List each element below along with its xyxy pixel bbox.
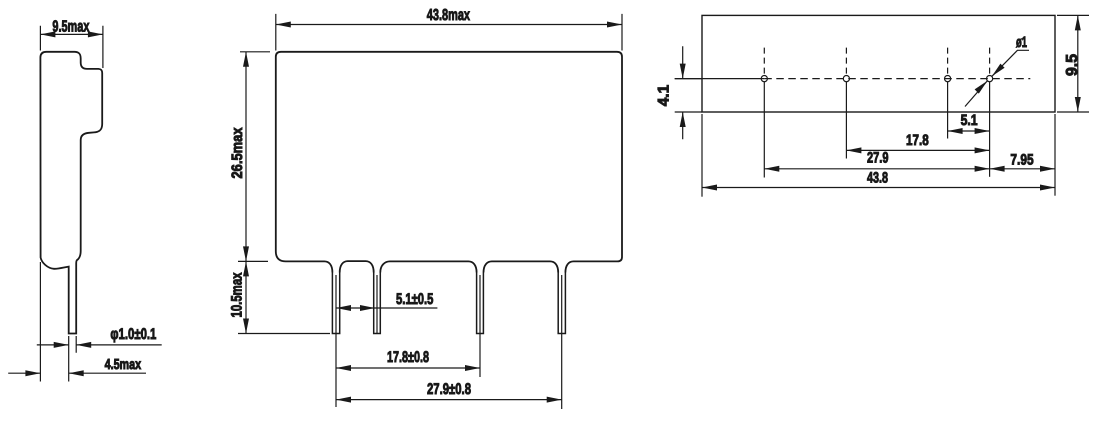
dimension 17.8 line <box>336 367 480 369</box>
dimension 9.5 line <box>1077 15 1079 112</box>
4.1 top extension line <box>675 78 702 80</box>
hole 1 circle <box>761 76 767 82</box>
dimension 26.5max line <box>245 52 247 262</box>
hole 2 extension line below <box>845 82 847 159</box>
hole center line dashed <box>764 78 1030 80</box>
dimension 10.5max arrowheads <box>243 261 249 333</box>
MIDDLE VIEW <box>229 7 623 409</box>
dimension 9.5max extension lines <box>40 26 103 68</box>
diameter leader arrow lower <box>975 81 988 94</box>
svg-text:9.5max: 9.5max <box>52 19 89 36</box>
body-left extension line (4.5max) <box>39 262 41 382</box>
diameter leader line lower <box>965 81 987 107</box>
svg-text:27.9±0.8: 27.9±0.8 <box>427 381 471 398</box>
4.1 bottom extension line <box>675 111 702 113</box>
svg-text:43.8max: 43.8max <box>427 7 470 24</box>
dimension 10.5max line <box>245 261 247 333</box>
svg-text:7.95: 7.95 <box>1010 152 1033 169</box>
dimension 26.5max arrowheads <box>243 52 249 262</box>
hole 1 vertical dashed centerline <box>763 48 765 74</box>
hole 4 circle <box>987 76 993 82</box>
dimension 4.5max lines <box>8 372 146 374</box>
dimension 5.1 line <box>336 307 437 309</box>
svg-text:φ1.0±0.1: φ1.0±0.1 <box>110 326 156 343</box>
hole center line solid left part <box>675 78 765 80</box>
hole 2 circle <box>843 76 849 82</box>
front-view body outline with pin roots <box>276 52 622 273</box>
pin edge extension lines (phi dim) <box>69 336 77 382</box>
rect right extension below <box>1054 114 1056 196</box>
dimension phi1.0 lines <box>37 344 162 346</box>
dimension 17.8 arrowheads <box>336 365 480 371</box>
dimension phi1.0 arrowheads <box>54 342 91 348</box>
dimension 43.8 arrowheads <box>702 185 1055 191</box>
dimension 4.1 arrowheads <box>680 64 686 127</box>
dimension 5.1 arrowheads <box>336 305 375 311</box>
dimension 7.95 line <box>990 168 1055 170</box>
hole 3 circle <box>945 76 951 82</box>
dimension 43.8 line <box>702 187 1055 189</box>
pin 4 center extension line <box>561 275 563 409</box>
dimension 27.9 line <box>764 168 989 170</box>
26.5max / 10.5max shared extension line at body bottom <box>238 260 268 262</box>
svg-text:17.8±0.8: 17.8±0.8 <box>387 349 429 366</box>
dimension 4.1 lines <box>682 46 684 139</box>
dimension 5.1 arrowheads <box>948 128 990 134</box>
svg-text:5.1±0.5: 5.1±0.5 <box>396 291 434 308</box>
hole 4 extension line below <box>989 82 991 177</box>
dimension 17.8 arrowheads <box>846 147 989 153</box>
svg-text:4.1: 4.1 <box>656 84 673 106</box>
9.5 bottom extension line <box>1057 111 1089 113</box>
dimension 43.8max arrowheads <box>276 22 622 28</box>
rect left extension below <box>701 114 703 197</box>
LEFT VIEW <box>8 19 162 382</box>
pin 3 outline <box>477 273 484 334</box>
pin 1 outline <box>332 273 339 334</box>
dimension 27.9 arrowheads <box>764 166 989 172</box>
side-view body outline <box>40 52 102 334</box>
pcb layout rectangle <box>702 15 1055 112</box>
pin 2 outline <box>374 273 381 334</box>
svg-text:5.1: 5.1 <box>961 112 978 129</box>
hole 4 vertical dashed centerline <box>989 48 991 74</box>
svg-text:9.5: 9.5 <box>1064 54 1081 76</box>
hole 3 extension line below <box>947 82 949 139</box>
dimension 9.5 arrowheads <box>1075 15 1081 112</box>
dimension 27.9 arrowheads <box>336 397 562 403</box>
svg-text:4.5max: 4.5max <box>105 357 142 373</box>
dimension 27.9 line <box>336 399 562 401</box>
pin 1 center extension line <box>335 275 337 407</box>
dimension 5.1 line <box>948 130 990 132</box>
hole 1 extension line below <box>763 82 765 178</box>
RIGHT VIEW <box>656 15 1090 196</box>
diameter leader line upper <box>992 50 1029 76</box>
pin 3 center extension line <box>479 275 481 377</box>
dimension 43.8max line <box>276 24 622 26</box>
svg-text:ø1: ø1 <box>1016 34 1027 51</box>
svg-text:26.5max: 26.5max <box>229 127 246 179</box>
svg-text:27.9: 27.9 <box>867 150 889 167</box>
svg-text:43.8: 43.8 <box>867 170 888 187</box>
hole 3 vertical dashed centerline <box>947 48 949 74</box>
pin 4 outline <box>558 273 565 334</box>
svg-text:17.8: 17.8 <box>906 132 929 149</box>
dimension 4.5max arrowheads <box>25 370 83 376</box>
26.5max top extension line <box>240 51 270 53</box>
diameter leader arrow upper <box>992 64 1005 77</box>
dimension 17.8 line <box>846 149 989 151</box>
pin 2 center extension line <box>376 275 378 334</box>
dimension 43.8max extension lines <box>276 14 622 51</box>
9.5 top extension line <box>1057 14 1089 16</box>
svg-text:10.5max: 10.5max <box>229 272 246 317</box>
dimension 9.5max arrowheads <box>40 31 103 37</box>
dimension 9.5max line <box>40 33 103 35</box>
10.5max bottom extension line <box>238 333 330 335</box>
hole 2 vertical dashed centerline <box>845 48 847 74</box>
dimension 7.95 arrowheads <box>990 166 1055 172</box>
